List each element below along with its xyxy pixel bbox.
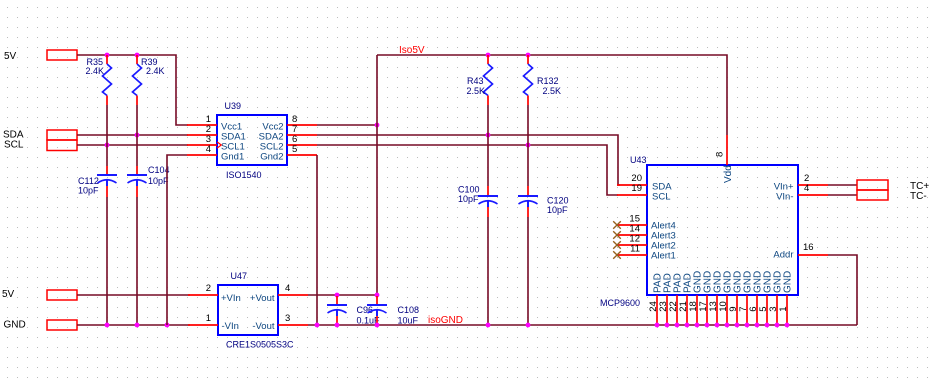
U39 SCL1 clock mark: [217, 142, 221, 148]
wire Gnd1 down: [167, 155, 187, 325]
svg-text:C120: C120: [547, 196, 569, 206]
svg-text:5V: 5V: [4, 51, 17, 62]
junction isoGND/pin 1: [785, 323, 790, 328]
svg-text:C108: C108: [398, 305, 420, 315]
svg-text:+VIn: +VIn: [221, 293, 241, 304]
svg-text:5V: 5V: [2, 289, 15, 300]
junction Vcc2/Iso5V column: [375, 123, 380, 128]
svg-text:Vdd: Vdd: [723, 165, 734, 183]
U43 pin 21 (PAD): [678, 273, 694, 325]
wire R43-C100 column: [487, 105, 489, 325]
U39 pin 4 (Gnd1): [187, 144, 244, 163]
junction isoGND/pin 5: [765, 323, 770, 328]
no-connect X pin 14: [613, 231, 621, 238]
wire Gnd2 down: [316, 155, 318, 325]
wire Addr to isoGND: [828, 255, 857, 325]
junction GND/C112: [105, 323, 110, 328]
U43 pin 13 (GND): [708, 271, 724, 325]
IC U39 ISO1540 body: [217, 101, 287, 180]
junction isoGND/C100: [486, 323, 491, 328]
U39 pin 7 (SDA2): [259, 124, 317, 143]
U43 pin 3 (GND): [768, 271, 784, 325]
U43 pin 24 (PAD): [648, 273, 664, 325]
no-connect X pin 12: [613, 241, 621, 248]
capacitor C104 10pF: [127, 165, 170, 197]
junction isoGND/pin 6: [755, 323, 760, 328]
svg-text:isoGND: isoGND: [428, 315, 463, 326]
svg-text:19: 19: [631, 183, 642, 194]
junction isoGND/pin 24: [655, 323, 660, 328]
U47 pin 3 (-Vout): [252, 313, 308, 332]
svg-text:U43: U43: [630, 155, 647, 165]
wire 5V to +VIn: [77, 294, 190, 296]
net label isoGND: [428, 315, 463, 326]
no-connect X pin 11: [613, 251, 621, 258]
wire +Vout to Iso5V column: [308, 294, 377, 296]
U39 pin 5 (Gnd2): [260, 144, 317, 163]
U43 pin 14 (Alert3): [617, 224, 676, 242]
svg-text:10uF: 10uF: [398, 316, 419, 326]
svg-text:2: 2: [206, 283, 211, 294]
junction isoGND/C120: [526, 323, 531, 328]
svg-text:+Vout: +Vout: [250, 293, 275, 304]
svg-text:8: 8: [714, 152, 725, 157]
wire R132-C120 column: [527, 105, 529, 325]
svg-text:16: 16: [803, 242, 814, 253]
no-connect X pin 15: [613, 221, 621, 228]
resistor R35 2.4K: [86, 55, 112, 105]
svg-text:Alert1: Alert1: [651, 251, 676, 262]
junction isoGND/pin 7: [745, 323, 750, 328]
wire R35-C112 column: [106, 105, 108, 325]
svg-text:U47: U47: [231, 271, 248, 281]
junction isoGND/pin 9: [735, 323, 740, 328]
wire VIn- to TC-: [828, 194, 857, 196]
U43 pin 8 (Vdd): [714, 135, 734, 183]
svg-text:2.5K: 2.5K: [543, 86, 562, 96]
svg-text:C112: C112: [78, 176, 99, 186]
svg-text:4: 4: [804, 183, 809, 194]
svg-text:11: 11: [630, 244, 640, 255]
wire Iso5V vertical: [376, 55, 378, 295]
svg-text:10pF: 10pF: [148, 176, 169, 186]
svg-text:SCL: SCL: [4, 140, 24, 151]
junction +Vout/C108-Iso5V: [375, 293, 380, 298]
junction 5V/R35: [105, 53, 110, 58]
junction SCL/R35-C112: [105, 143, 110, 148]
junction isoGND/pin 10: [725, 323, 730, 328]
svg-text:2.5K: 2.5K: [467, 86, 486, 96]
U43 pin 1 (GND): [778, 271, 794, 325]
U43 pin 16 (Addr): [773, 242, 828, 261]
svg-text:R43: R43: [467, 76, 484, 86]
U43 pin 11 (Alert1): [617, 244, 676, 262]
junction 5V/R39: [135, 53, 140, 58]
wire SCL: [77, 144, 188, 146]
junction SDA/R39-C104: [135, 133, 140, 138]
port SCL: [4, 140, 77, 151]
U43 pin 18 (GND): [688, 271, 704, 325]
net label Iso5V: [399, 45, 425, 56]
svg-text:-VIn: -VIn: [222, 321, 239, 332]
U43 pin 2 (VIn+): [774, 173, 828, 193]
svg-text:5: 5: [292, 144, 297, 155]
port TC+: [857, 180, 929, 192]
capacitor C120 10pF: [518, 186, 569, 217]
junction SCL2/R132-C120: [526, 143, 531, 148]
U43 pin 7 (GND): [738, 271, 754, 325]
capacitor C100 10pF: [458, 185, 498, 218]
wire Vcc2 to Iso5V: [317, 124, 377, 126]
port TC-: [857, 190, 927, 202]
port 5V (top): [4, 50, 77, 62]
wire SDA2 to U43 SDA: [317, 135, 620, 185]
U43 pin 20 (SDA): [617, 173, 672, 193]
junction +Vout/C96: [335, 293, 340, 298]
svg-text:3: 3: [285, 313, 290, 324]
U43 pin 17 (GND): [698, 271, 714, 325]
svg-text:4: 4: [206, 144, 211, 155]
svg-text:GND: GND: [4, 320, 26, 331]
svg-text:10pF: 10pF: [547, 205, 568, 215]
svg-text:Gnd2: Gnd2: [260, 152, 283, 163]
svg-text:10pF: 10pF: [458, 194, 479, 204]
svg-text:10pF: 10pF: [78, 186, 99, 196]
U39 pin 3 (SCL1): [187, 134, 245, 153]
junction isoGND/pin 18: [695, 323, 700, 328]
wire GND to -VIn: [77, 324, 190, 326]
capacitor C108 10uF: [367, 296, 419, 326]
U43 pin 9 (GND): [728, 271, 744, 325]
svg-text:ISO1540: ISO1540: [226, 170, 262, 180]
junction Iso5V/R43: [486, 53, 491, 58]
capacitor C112 10pF: [78, 166, 117, 197]
U43 pin 12 (Alert2): [617, 234, 676, 252]
wire R39-C104 column: [136, 105, 138, 325]
U43 pin 22 (PAD): [668, 273, 684, 325]
U43 pin 15 (Alert4): [617, 214, 676, 232]
svg-text:SCL: SCL: [652, 192, 670, 203]
U43 pin 4 (VIn-): [776, 183, 828, 203]
svg-text:C100: C100: [458, 185, 480, 195]
junction Iso5V/R132: [526, 53, 531, 58]
port GND: [4, 320, 78, 331]
svg-text:CRE1S0505S3C: CRE1S0505S3C: [226, 340, 294, 350]
svg-text:Gnd1: Gnd1: [221, 152, 244, 163]
port SDA: [3, 130, 77, 141]
svg-text:GND: GND: [783, 271, 794, 293]
junction isoGND/pin 3: [775, 323, 780, 328]
U47 pin 4 (+Vout): [250, 283, 308, 304]
svg-text:2.4K: 2.4K: [146, 66, 165, 76]
junction isoGND/pin 17: [705, 323, 710, 328]
U39 pin 2 (SDA1): [187, 124, 246, 143]
wire 5V to U39 Vcc1: [77, 55, 188, 125]
resistor R132 2.5K: [524, 55, 562, 105]
U39 pin 6 (SCL2): [260, 134, 317, 153]
wire VIn+ to TC+: [828, 184, 857, 186]
wire net Iso5V rail: [377, 55, 727, 135]
capacitor C96 0.1uF: [327, 296, 380, 326]
junction isoGND/Gnd2: [315, 323, 320, 328]
resistor R43 2.5K: [467, 55, 493, 105]
IC U43 MCP9600 body: [600, 155, 798, 308]
U43 pin 6 (GND): [748, 271, 764, 325]
wire SCL2 to U43 SCL: [317, 145, 618, 195]
junction isoGND/C96: [335, 323, 340, 328]
IC U47 CRE1S0505S3C body: [218, 271, 294, 350]
U47 pin 1 (-VIn): [188, 313, 239, 332]
junction isoGND/pin 21: [685, 323, 690, 328]
svg-text:MCP9600: MCP9600: [600, 298, 640, 308]
svg-text:C96: C96: [357, 305, 374, 315]
svg-text:1: 1: [206, 313, 211, 324]
junction isoGND/pin 22: [675, 323, 680, 328]
port 5V (bottom): [2, 289, 77, 300]
junction isoGND/pin 13: [715, 323, 720, 328]
U47 pin 2 (+VIn): [188, 283, 241, 304]
svg-text:-Vout: -Vout: [252, 321, 275, 332]
svg-text:U39: U39: [225, 101, 242, 111]
svg-text:R132: R132: [537, 76, 559, 86]
svg-text:TC-: TC-: [910, 191, 927, 202]
svg-text:4: 4: [285, 283, 290, 294]
resistor R39 2.4K: [133, 55, 165, 105]
U39 pin 8 (Vcc2): [262, 114, 317, 133]
wire net isoGND row: [308, 324, 857, 326]
svg-text:Iso5V: Iso5V: [399, 45, 425, 56]
junction GND/Gnd1: [165, 323, 170, 328]
svg-text:VIn-: VIn-: [776, 192, 793, 203]
svg-text:2.4K: 2.4K: [86, 66, 105, 76]
U43 pin 5 (GND): [758, 271, 774, 325]
U43 pin 19 (SCL): [617, 183, 670, 203]
junction isoGND/pin 23: [665, 323, 670, 328]
junction SDA2/R43-C100: [486, 133, 491, 138]
U43 pin 10 (GND): [718, 271, 734, 325]
svg-text:1: 1: [778, 307, 789, 312]
junction isoGND/C108: [375, 323, 380, 328]
wire SDA: [77, 134, 188, 136]
svg-text:Addr: Addr: [773, 250, 793, 261]
U43 pin 23 (PAD): [658, 273, 674, 325]
U39 pin 1 (Vcc1): [187, 114, 242, 133]
junction GND/C104: [135, 323, 140, 328]
